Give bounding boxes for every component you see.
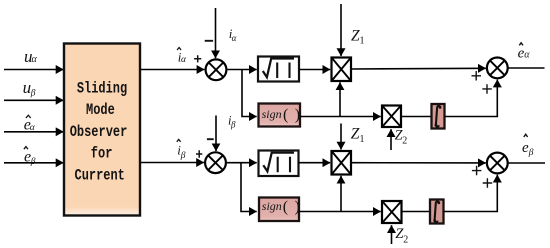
minus sign at beta summing junction	[207, 138, 214, 140]
wire: input e_beta_hat	[4, 162, 64, 164]
wire: sign box to multiplier M2a	[300, 116, 381, 118]
svg-text:β: β	[528, 148, 534, 158]
sign box (alpha)	[259, 104, 301, 127]
label e_alpha_hat	[24, 115, 36, 133]
plus sign left of output sum (alpha)	[472, 71, 482, 81]
wire: input u_alpha	[4, 69, 64, 71]
wire: branch down to sign box (beta)	[241, 163, 257, 212]
multiplier M1a	[332, 58, 352, 82]
wire: sqrt to multiplier M1a	[299, 69, 330, 71]
svg-text:(: (	[283, 199, 288, 216]
sqrt-abs box (alpha)	[258, 57, 299, 82]
summing junction S2 (beta input)	[205, 152, 226, 173]
wire: e_beta_hat output	[508, 162, 545, 164]
plus sign below output sum (beta)	[483, 178, 493, 188]
svg-text:Sliding: Sliding	[77, 80, 127, 98]
wire: branch down to sign box (alpha)	[242, 70, 257, 117]
svg-text:for: for	[91, 145, 113, 163]
svg-text:α: α	[232, 33, 237, 43]
label e_beta_hat	[24, 147, 36, 167]
svg-text:sign: sign	[262, 199, 282, 213]
wire: Z2 up into M2b	[391, 225, 393, 244]
label u_alpha	[24, 47, 38, 66]
wire: M2a to integrator	[401, 116, 432, 118]
wire: input e_alpha_hat	[4, 131, 64, 133]
sign box (beta)	[259, 198, 300, 222]
wire: M1a to output summing junction	[351, 67, 486, 70]
svg-text:β: β	[230, 120, 236, 130]
svg-text:2: 2	[402, 136, 407, 147]
wire: M1b to output summing junction	[351, 162, 486, 164]
multiplier M2a	[382, 106, 401, 128]
label i_beta_hat	[177, 139, 186, 161]
label Z2 (alpha)	[395, 127, 408, 146]
wire: sqrt to multiplier M1b	[299, 162, 331, 164]
wire: branch up from sign line into M1a bottom	[339, 82, 341, 116]
svg-text:β: β	[30, 157, 36, 167]
svg-text:2: 2	[403, 234, 408, 245]
svg-text:β: β	[180, 151, 186, 161]
minus sign at alpha summing junction	[205, 40, 213, 42]
plus sign below output sum (alpha)	[482, 84, 492, 94]
label e_alpha_hat output	[518, 43, 531, 62]
plus sign left of output sum (beta)	[472, 166, 482, 176]
sqrt-abs box (beta)	[259, 151, 299, 177]
svg-text:α: α	[32, 54, 38, 65]
plus sign at alpha summing junction	[194, 55, 201, 62]
svg-text:Current: Current	[75, 168, 125, 185]
svg-text:(: (	[283, 106, 288, 123]
wire: integrator up into output sum (alpha)	[445, 80, 498, 117]
svg-text:β: β	[30, 89, 36, 99]
wire: Z2 up into M2a	[390, 129, 392, 150]
summing junction S1 (alpha input)	[206, 59, 227, 80]
label i_alpha_hat	[177, 48, 187, 66]
label Z1 (beta)	[351, 126, 365, 145]
wire: Z1 down into M1a	[340, 4, 342, 56]
wire: S2 to sqrt box (beta)	[227, 162, 257, 164]
wire: Z1 down into M1b	[340, 124, 342, 150]
multiplier M1b	[332, 151, 352, 175]
wire: integrator up into output sum (beta)	[444, 175, 498, 212]
wire: i_alpha down into summing junction	[215, 8, 217, 58]
wire: block to beta summing junction	[140, 162, 204, 164]
wire: S1 to sqrt box	[228, 69, 257, 71]
svg-text:α: α	[181, 55, 187, 65]
label i_alpha	[229, 26, 237, 43]
integrator box (beta)	[430, 200, 444, 224]
svg-text:sign: sign	[262, 107, 282, 121]
svg-text:): )	[295, 199, 300, 216]
label i_beta	[228, 113, 236, 129]
label u_beta	[23, 78, 36, 99]
integrator box (alpha)	[432, 104, 445, 129]
svg-text:Observer: Observer	[70, 124, 128, 142]
wire: block to alpha summing junction	[140, 69, 204, 71]
svg-text:Mode: Mode	[86, 102, 115, 120]
svg-text:): )	[295, 106, 300, 123]
wire: input u_beta	[4, 99, 64, 101]
svg-text:Z: Z	[351, 126, 360, 143]
label e_beta_hat output	[522, 134, 534, 158]
wire: branch up from sign line into M1b bottom	[340, 176, 342, 212]
wire: i_beta down into summing junction	[215, 116, 217, 152]
svg-text:1: 1	[360, 36, 365, 47]
label Z1 (alpha)	[351, 27, 365, 46]
svg-text:α: α	[524, 50, 530, 61]
block: Sliding Mode Observer for Current	[64, 44, 140, 216]
wire: e_alpha_hat output	[508, 67, 545, 69]
label Z2 (beta)	[395, 226, 408, 245]
wire: sign box to multiplier M2b	[299, 211, 381, 213]
summing junction S4 (beta output)	[487, 153, 508, 174]
svg-text:1: 1	[360, 134, 365, 145]
plus sign at beta summing junction	[196, 150, 202, 158]
summing junction S3 (alpha output)	[487, 58, 508, 79]
multiplier M2b	[382, 201, 402, 223]
wire: M2b to integrator	[402, 211, 431, 213]
